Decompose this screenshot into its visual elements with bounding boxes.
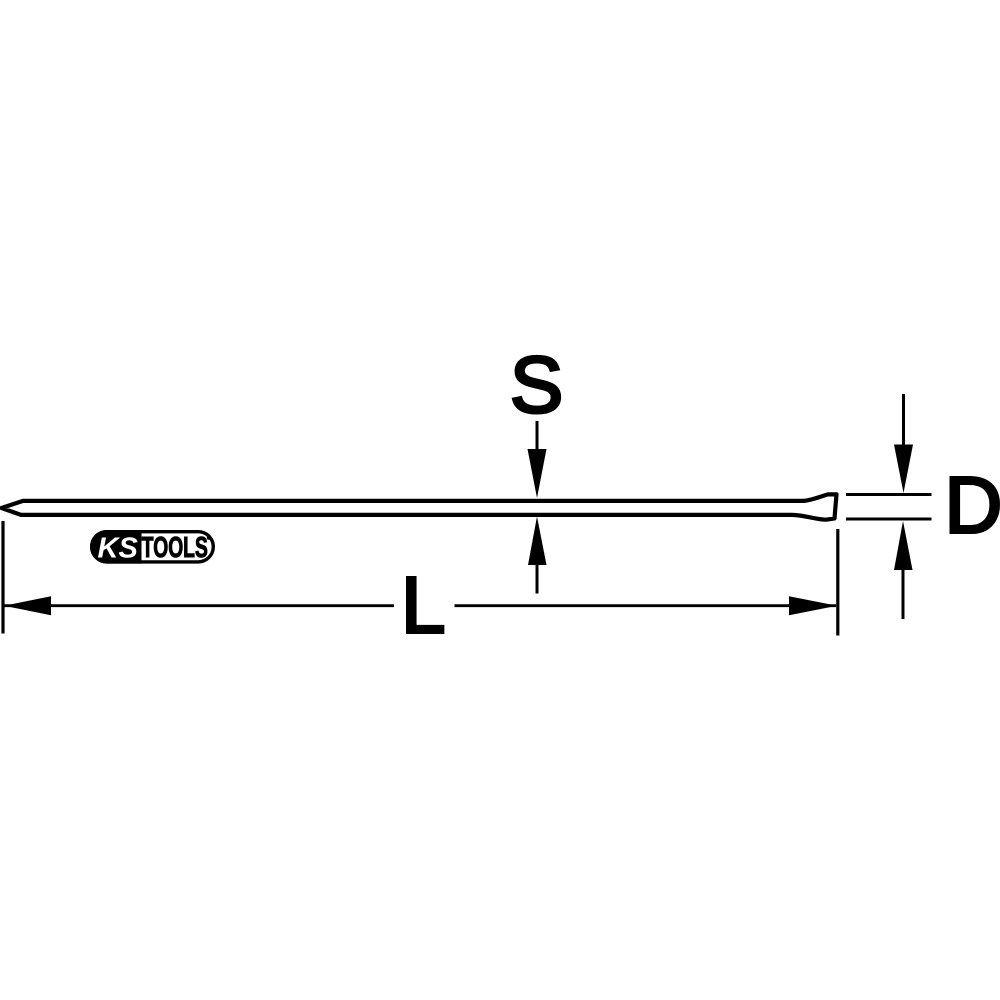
svg-text:KS: KS bbox=[98, 533, 139, 565]
S arrow down (above bar) bbox=[528, 421, 547, 498]
svg-text:S: S bbox=[510, 340, 563, 429]
svg-text:D: D bbox=[945, 461, 1000, 550]
L arrowhead left bbox=[4, 596, 51, 615]
D arrow up (below) bbox=[894, 521, 913, 619]
L extension line right bbox=[836, 529, 839, 636]
L dimension line left segment bbox=[4, 604, 394, 607]
KS TOOLS logo bbox=[90, 530, 213, 565]
pry bar body bbox=[2, 494, 837, 519]
L arrowhead right bbox=[789, 596, 837, 615]
D dimension line top bbox=[846, 493, 932, 496]
L dimension line right segment bbox=[455, 604, 837, 607]
L extension line left bbox=[1, 521, 4, 634]
D dimension line bottom bbox=[846, 518, 932, 521]
S arrow up (below bar) bbox=[528, 517, 547, 594]
svg-text:TOOLS: TOOLS bbox=[142, 532, 208, 564]
D arrow down (above) bbox=[894, 394, 913, 493]
svg-text:L: L bbox=[401, 561, 446, 650]
